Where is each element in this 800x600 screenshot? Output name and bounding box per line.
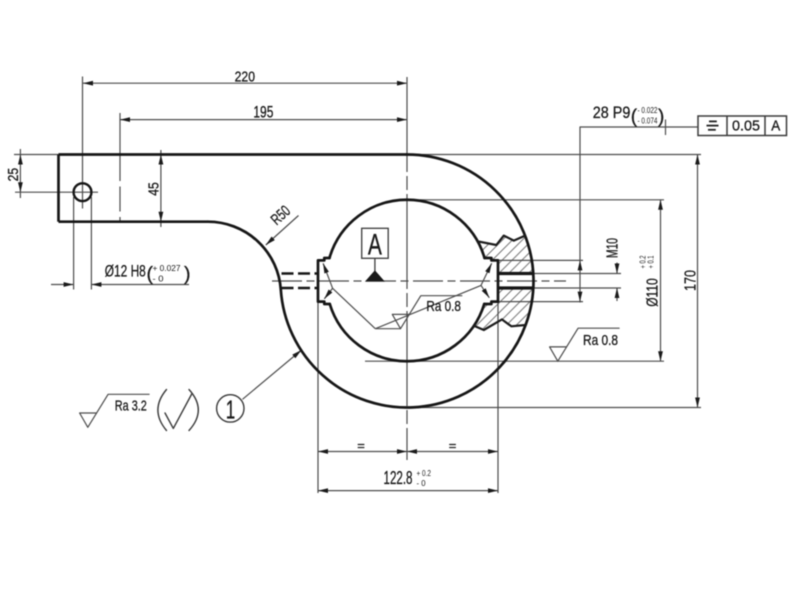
svg-text:A: A [771, 118, 780, 134]
svg-text:- 0: - 0 [153, 275, 165, 284]
svg-text:Ra 0.8: Ra 0.8 [426, 299, 461, 315]
svg-text:45: 45 [147, 182, 163, 196]
svg-text:): ) [658, 107, 664, 128]
svg-text:28 P9: 28 P9 [593, 104, 631, 122]
svg-text:+ 0.2: + 0.2 [417, 468, 432, 478]
svg-text:- 0.074: - 0.074 [638, 116, 658, 125]
svg-text:0.05: 0.05 [732, 118, 760, 134]
svg-text:195: 195 [253, 103, 273, 121]
svg-text:Ø110: Ø110 [645, 278, 662, 307]
svg-text:): ) [184, 263, 191, 285]
svg-text:Ra 3.2: Ra 3.2 [115, 398, 147, 414]
svg-text:Ra 0.8: Ra 0.8 [583, 333, 618, 349]
svg-text:122.8: 122.8 [384, 468, 413, 488]
svg-text:A: A [368, 228, 382, 261]
svg-text:M10: M10 [604, 238, 621, 258]
svg-text:- 0: - 0 [417, 478, 426, 488]
svg-text:170: 170 [682, 270, 699, 291]
svg-text:=: = [449, 438, 457, 453]
svg-text:+ 0.027: + 0.027 [153, 264, 181, 273]
svg-text:=: = [357, 438, 365, 453]
svg-text:- 0.022: - 0.022 [638, 106, 658, 115]
svg-text:220: 220 [235, 69, 255, 85]
svg-text:25: 25 [6, 168, 22, 182]
svg-text:Ø12 H8: Ø12 H8 [105, 262, 146, 280]
svg-text:1: 1 [226, 394, 236, 424]
svg-text:+ 0.1: + 0.1 [646, 255, 655, 268]
